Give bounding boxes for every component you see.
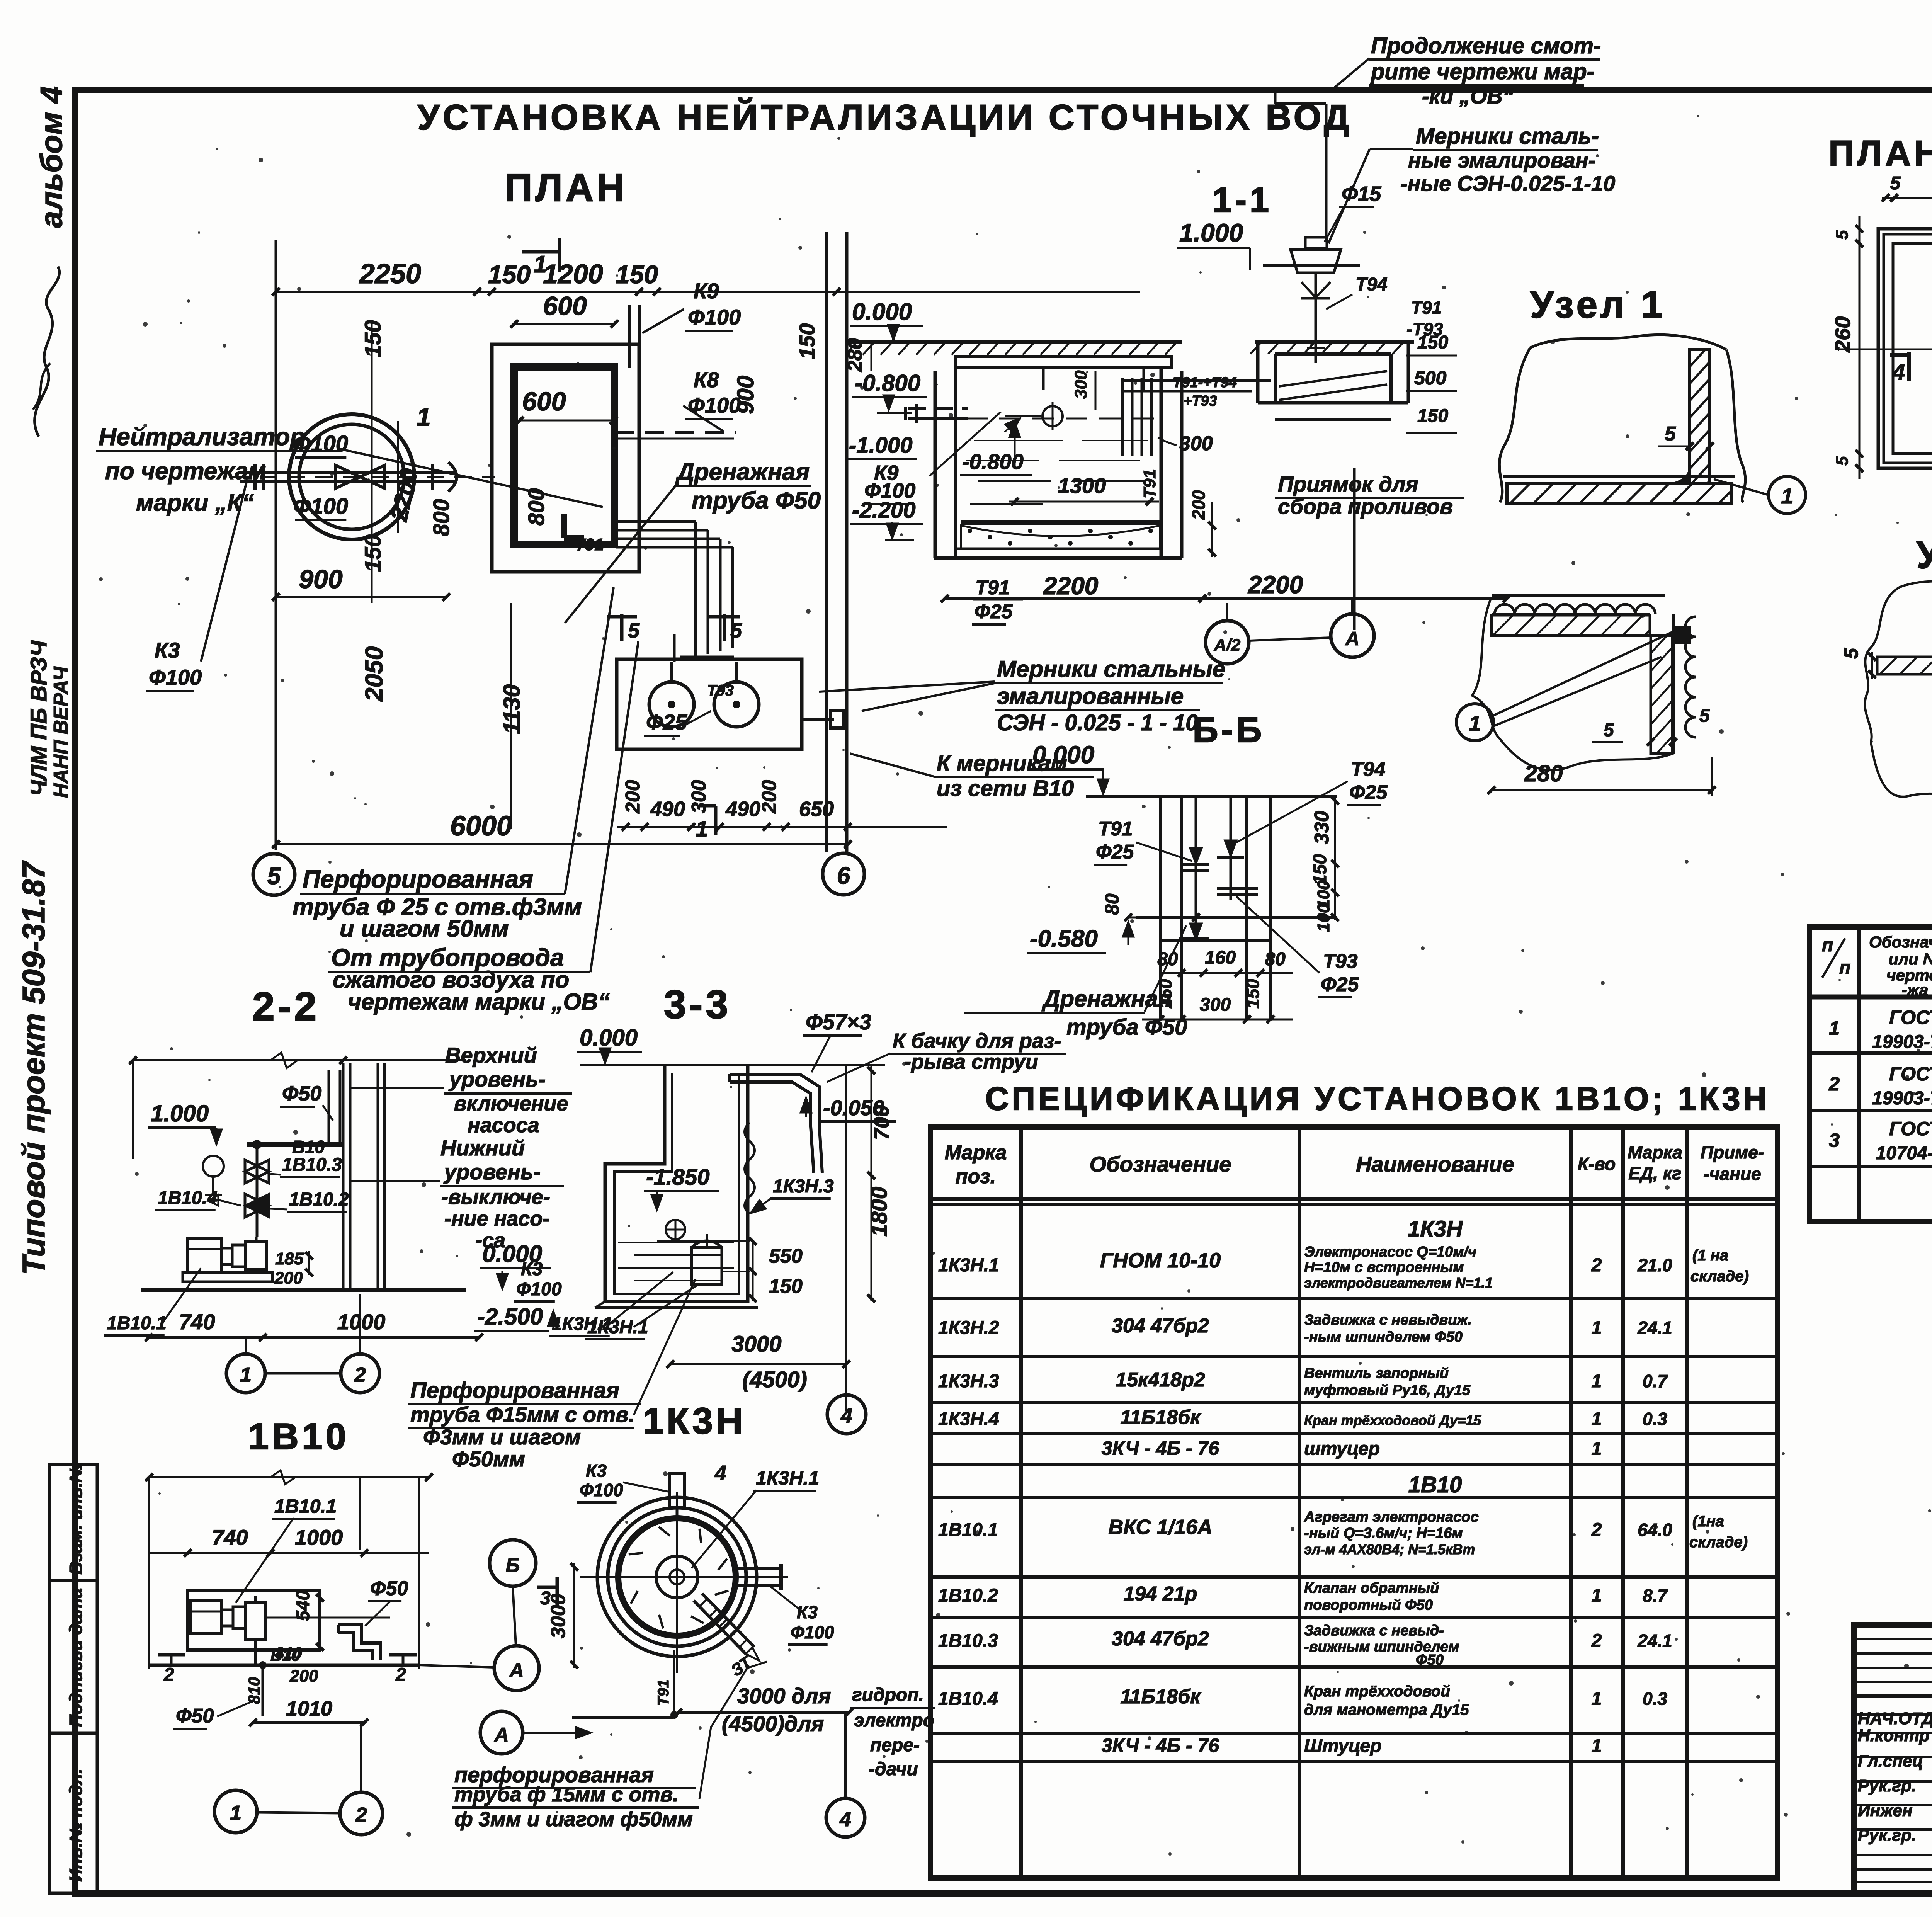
svg-text:194 21р: 194 21р bbox=[1124, 1583, 1197, 1605]
svg-text:СЭН - 0.025 - 1 - 10: СЭН - 0.025 - 1 - 10 bbox=[997, 710, 1198, 735]
svg-text:Б-Б: Б-Б bbox=[1193, 710, 1265, 750]
svg-text:0.000: 0.000 bbox=[580, 1025, 638, 1051]
svg-text:160: 160 bbox=[1205, 947, 1236, 968]
svg-text:Инжен: Инжен bbox=[1858, 1801, 1913, 1820]
svg-text:Штуцер: Штуцер bbox=[1304, 1736, 1381, 1756]
1k3n tank circles bbox=[597, 1497, 757, 1657]
1v10 axis circles 1 2 bottom bbox=[214, 1790, 257, 1833]
uzel 1 corner black weld square bbox=[1673, 626, 1691, 644]
svg-text:поз.: поз. bbox=[956, 1165, 996, 1188]
svg-text:Нейтрализатор: Нейтрализатор bbox=[99, 423, 305, 451]
svg-text:24.1: 24.1 bbox=[1637, 1631, 1672, 1651]
svg-text:из сети В10: из сети В10 bbox=[937, 776, 1074, 801]
mernik vessel symbol bbox=[1263, 264, 1360, 267]
svg-text:Ф50: Ф50 bbox=[1416, 1652, 1444, 1668]
2-2 riser pipe f50 bbox=[328, 1070, 330, 1147]
svg-text:(1на: (1на bbox=[1692, 1513, 1724, 1530]
svg-text:810: 810 bbox=[245, 1677, 263, 1704]
svg-text:1К3Н.1: 1К3Н.1 bbox=[938, 1255, 999, 1276]
bachok plan inner square bbox=[1884, 234, 1932, 463]
B-B wall verticals bbox=[1159, 797, 1162, 1019]
svg-text:Ф25: Ф25 bbox=[646, 710, 687, 734]
svg-text:ГНОМ 10-10: ГНОМ 10-10 bbox=[1100, 1249, 1221, 1272]
svg-text:Клапан обратный: Клапан обратный bbox=[1304, 1580, 1439, 1596]
svg-text:1В10.2: 1В10.2 bbox=[289, 1189, 349, 1210]
svg-text:включение: включение bbox=[454, 1092, 568, 1115]
svg-text:5: 5 bbox=[730, 619, 742, 642]
2-2 manometer symbol bbox=[203, 1156, 224, 1177]
uzel 1 corner hatch band bbox=[1492, 615, 1650, 636]
svg-text:740: 740 bbox=[212, 1525, 248, 1550]
axis circle A lower 1k3n bbox=[480, 1711, 523, 1754]
svg-text:-рыва струи: -рыва струи bbox=[904, 1050, 1038, 1073]
2-2 pump unit bbox=[187, 1238, 221, 1272]
uzel 1 weld fillet black bbox=[1672, 466, 1690, 483]
svg-text:3000: 3000 bbox=[547, 1594, 570, 1638]
svg-text:304 47бр2: 304 47бр2 bbox=[1112, 1628, 1209, 1650]
priyamok walls bbox=[1256, 342, 1260, 403]
svg-text:пере-: пере- bbox=[870, 1735, 920, 1755]
1k3n right pipe stub bbox=[736, 1567, 781, 1570]
svg-text:1000: 1000 bbox=[295, 1525, 343, 1550]
svg-text:600: 600 bbox=[522, 387, 566, 416]
svg-text:600: 600 bbox=[543, 291, 587, 321]
svg-text:труба ф 15мм с отв.: труба ф 15мм с отв. bbox=[454, 1783, 679, 1806]
tank water lines bbox=[966, 418, 1155, 420]
1v10 dim 740 1000 bbox=[149, 1552, 429, 1554]
svg-text:Ф50: Ф50 bbox=[176, 1705, 214, 1727]
svg-text:Т94: Т94 bbox=[1351, 758, 1386, 781]
svg-text:А: А bbox=[493, 1724, 509, 1746]
plan tank inner thick rectangle bbox=[514, 367, 614, 544]
svg-text:Подписьи дата: Подписьи дата bbox=[66, 1588, 86, 1727]
svg-text:1В10: 1В10 bbox=[1408, 1472, 1462, 1497]
svg-text:2: 2 bbox=[395, 1665, 406, 1685]
svg-text:-жа: -жа bbox=[1902, 981, 1929, 999]
title block outer bbox=[1854, 1625, 1932, 1893]
uzel 1 upper cloud outline bbox=[1499, 335, 1745, 502]
svg-text:СПЕЦИФИКАЦИЯ УСТАНОВОК 1В1О;: СПЕЦИФИКАЦИЯ УСТАНОВОК 1В1О; 1К3Н bbox=[985, 1080, 1770, 1117]
svg-text:4: 4 bbox=[714, 1461, 726, 1485]
svg-text:300: 300 bbox=[1071, 370, 1090, 399]
uzel 1 corner leaders from item 1 bbox=[1456, 704, 1493, 741]
svg-text:Т91: Т91 bbox=[1098, 818, 1133, 840]
B-B horizontal lines lower bbox=[1136, 916, 1337, 919]
svg-text:1К3Н: 1К3Н bbox=[1408, 1216, 1463, 1242]
svg-text:(1 на: (1 на bbox=[1692, 1247, 1728, 1264]
svg-text:1: 1 bbox=[696, 816, 708, 842]
margin box vzam inv bbox=[49, 1465, 97, 1580]
svg-text:или №: или № bbox=[1888, 950, 1932, 968]
svg-text:К3: К3 bbox=[797, 1602, 818, 1622]
svg-text:3-3: 3-3 bbox=[664, 982, 731, 1027]
3-3 flexible hose squiggle bbox=[745, 1123, 755, 1214]
neutralizer circle (item 1) bbox=[289, 414, 414, 539]
svg-text:А: А bbox=[509, 1659, 524, 1682]
svg-text:-1.000: -1.000 bbox=[849, 433, 912, 458]
bachok plan top dim 5 260 5 bbox=[1882, 197, 1932, 199]
svg-text:1В10.4: 1В10.4 bbox=[938, 1689, 998, 1709]
svg-text:Ф25: Ф25 bbox=[1096, 841, 1134, 863]
svg-text:Узел 2: Узел 2 bbox=[1917, 534, 1932, 576]
svg-text:2: 2 bbox=[1828, 1073, 1840, 1095]
svg-text:Ф25: Ф25 bbox=[1349, 781, 1388, 804]
3-3 submersible pump bbox=[692, 1247, 722, 1284]
svg-text:11Б18бк: 11Б18бк bbox=[1120, 1406, 1201, 1429]
svg-text:Взам. инв.№: Взам. инв.№ bbox=[66, 1462, 86, 1575]
svg-text:150: 150 bbox=[1243, 979, 1263, 1009]
svg-text:труба Ф50: труба Ф50 bbox=[1066, 1015, 1187, 1040]
svg-text:по чертежам: по чертежам bbox=[105, 458, 266, 485]
section flags 5-5 on plan bbox=[620, 614, 624, 641]
svg-text:-ние насо-: -ние насо- bbox=[444, 1207, 549, 1230]
svg-text:1: 1 bbox=[1592, 1371, 1602, 1391]
B-B top line bbox=[1086, 795, 1337, 798]
1k3n ground line bbox=[572, 1716, 673, 1719]
1v10 section marks 2-2 bbox=[158, 1653, 185, 1657]
svg-text:80: 80 bbox=[1101, 893, 1123, 915]
svg-text:Верхний: Верхний bbox=[445, 1043, 537, 1067]
svg-text:-чание: -чание bbox=[1703, 1164, 1761, 1184]
svg-text:6000: 6000 bbox=[450, 811, 512, 842]
svg-text:поворотный Ф50: поворотный Ф50 bbox=[1304, 1597, 1433, 1613]
svg-text:Ф100: Ф100 bbox=[688, 305, 741, 329]
svg-text:-ным шпинделем Ф50: -ным шпинделем Ф50 bbox=[1304, 1329, 1463, 1345]
svg-text:1К3Н: 1К3Н bbox=[643, 1400, 746, 1442]
uzel 1 item circle 1 bbox=[1769, 476, 1806, 514]
1k3n diagonal perforated pipe bbox=[694, 1601, 746, 1654]
svg-text:штуцер: штуцер bbox=[1304, 1439, 1380, 1459]
B-B pipe verticals with flanges and arrows bbox=[1195, 797, 1197, 939]
svg-text:Т91: Т91 bbox=[1140, 469, 1159, 498]
2-2 wall double lines bbox=[342, 1063, 345, 1290]
svg-text:300: 300 bbox=[1200, 995, 1231, 1015]
svg-text:260: 260 bbox=[1830, 316, 1855, 353]
svg-text:150: 150 bbox=[769, 1275, 803, 1298]
3-3 reference top line bbox=[580, 1064, 885, 1066]
svg-text:1В10.3: 1В10.3 bbox=[938, 1631, 998, 1651]
svg-text:Т91: Т91 bbox=[1411, 298, 1442, 318]
svg-text:и шагом 50мм: и шагом 50мм bbox=[340, 915, 509, 942]
svg-text:УСТАНОВКА НЕЙТРАЛИЗАЦИИ СТОЧ: УСТАНОВКА НЕЙТРАЛИЗАЦИИ СТОЧНЫХ ВОД bbox=[417, 97, 1352, 137]
svg-text:Ф25: Ф25 bbox=[1321, 973, 1359, 996]
svg-text:рите чертежи мар-: рите чертежи мар- bbox=[1370, 59, 1594, 84]
grid circle 5 bbox=[253, 854, 295, 895]
svg-text:ВКС 1/16А: ВКС 1/16А bbox=[1108, 1516, 1213, 1539]
spec table outer border bbox=[1810, 927, 1932, 1221]
svg-text:550: 550 bbox=[769, 1245, 803, 1267]
vertical line through priyamok label bbox=[1353, 468, 1356, 630]
1v10 foundation rect bbox=[188, 1590, 320, 1650]
svg-text:200: 200 bbox=[289, 1667, 318, 1686]
svg-text:Н=10м с встроенным: Н=10м с встроенным bbox=[1304, 1259, 1464, 1276]
svg-text:Рук.гр.: Рук.гр. bbox=[1858, 1826, 1916, 1845]
svg-text:труба Ф15мм с отв.: труба Ф15мм с отв. bbox=[410, 1402, 634, 1427]
2-2 axis circles 1 and 2 bbox=[226, 1354, 265, 1393]
svg-text:Т91: Т91 bbox=[655, 1679, 672, 1706]
svg-text:1: 1 bbox=[1781, 484, 1793, 508]
svg-text:150: 150 bbox=[1417, 332, 1448, 353]
svg-text:500: 500 bbox=[1414, 367, 1447, 389]
svg-text:810: 810 bbox=[275, 1644, 302, 1662]
svg-text:1В10.1: 1В10.1 bbox=[938, 1520, 998, 1540]
big table outer border bbox=[930, 1127, 1777, 1878]
svg-text:Задвижка с невыд-: Задвижка с невыд- bbox=[1304, 1623, 1444, 1639]
svg-text:4: 4 bbox=[1892, 359, 1905, 384]
svg-text:1: 1 bbox=[417, 403, 431, 431]
svg-text:ГОСТ: ГОСТ bbox=[1889, 1007, 1932, 1028]
svg-text:-ный Q=3.6м/ч; Н=16м: -ный Q=3.6м/ч; Н=16м bbox=[1304, 1525, 1463, 1541]
svg-text:электродвигателем N=1.1: электродвигателем N=1.1 bbox=[1304, 1275, 1493, 1291]
svg-text:Марка: Марка bbox=[945, 1141, 1007, 1164]
svg-text:1К3Н.4: 1К3Н.4 bbox=[938, 1409, 999, 1429]
svg-text:490: 490 bbox=[725, 798, 760, 821]
plan grid line 5 bbox=[275, 240, 277, 850]
dim 900 left bbox=[276, 596, 446, 598]
svg-text:1В10: 1В10 bbox=[248, 1416, 349, 1457]
svg-text:ЕД, кг: ЕД, кг bbox=[1628, 1163, 1681, 1183]
svg-text:Продолжение смот-: Продолжение смот- bbox=[1371, 33, 1601, 58]
svg-text:200: 200 bbox=[274, 1269, 303, 1288]
svg-text:-0.580: -0.580 bbox=[1030, 925, 1098, 952]
section 1-1 ground line with hatching bbox=[850, 340, 1182, 344]
title block left thin rows bbox=[1854, 1638, 1932, 1640]
svg-text:2200: 2200 bbox=[1248, 571, 1303, 599]
dim 600 top bbox=[514, 323, 614, 325]
svg-text:1К3Н.1: 1К3Н.1 bbox=[756, 1467, 819, 1489]
svg-text:8.7: 8.7 bbox=[1643, 1585, 1668, 1606]
svg-text:-1.850: -1.850 bbox=[646, 1165, 709, 1190]
svg-text:5: 5 bbox=[1604, 720, 1614, 740]
svg-text:650: 650 bbox=[799, 798, 834, 821]
svg-text:1К3Н.3: 1К3Н.3 bbox=[773, 1176, 834, 1197]
svg-text:5: 5 bbox=[267, 863, 281, 890]
uzel 2 horizontal plate hatched bbox=[1877, 657, 1932, 674]
svg-text:5: 5 bbox=[1665, 423, 1676, 445]
svg-text:-выключе-: -выключе- bbox=[441, 1186, 550, 1209]
svg-text:К3: К3 bbox=[521, 1259, 543, 1279]
svg-text:Мерники стальные: Мерники стальные bbox=[997, 656, 1225, 682]
svg-text:ные эмалирован-: ные эмалирован- bbox=[1408, 148, 1595, 172]
3-3 float symbol bbox=[666, 1220, 685, 1239]
margin box inv podl bbox=[49, 1733, 97, 1893]
svg-text:150: 150 bbox=[1310, 854, 1330, 885]
svg-text:Перфорированная: Перфорированная bbox=[303, 865, 533, 893]
svg-text:НАЧ.ОТД: НАЧ.ОТД bbox=[1858, 1709, 1932, 1728]
svg-text:80: 80 bbox=[1265, 949, 1286, 970]
B-B bottom dims 150 300 150 bbox=[1142, 1019, 1293, 1021]
uzel 1 corner vertical bar hatched bbox=[1651, 636, 1672, 754]
svg-text:Ф100: Ф100 bbox=[791, 1622, 834, 1642]
svg-text:уровень-: уровень- bbox=[443, 1160, 541, 1184]
perforated pipe symbol in tank bbox=[1043, 406, 1063, 426]
svg-text:1: 1 bbox=[1469, 711, 1481, 735]
svg-text:2250: 2250 bbox=[359, 259, 421, 289]
svg-text:ЧЛМ ПБ ВРЗЧ: ЧЛМ ПБ ВРЗЧ bbox=[26, 640, 51, 796]
svg-text:1В10.2: 1В10.2 bbox=[938, 1585, 998, 1606]
axis circle A bbox=[494, 1646, 539, 1691]
svg-text:304 47бр2: 304 47бр2 bbox=[1112, 1315, 1209, 1337]
svg-text:200: 200 bbox=[758, 780, 781, 814]
big table header separator bbox=[930, 1197, 1777, 1201]
section mark 1 top bbox=[522, 250, 560, 254]
svg-text:Ф50мм: Ф50мм bbox=[452, 1447, 525, 1471]
svg-text:Мерники сталь-: Мерники сталь- bbox=[1416, 124, 1599, 149]
bachok plan section mark 4 left bbox=[1907, 352, 1911, 381]
svg-text:складе): складе) bbox=[1689, 1534, 1748, 1551]
svg-text:1К3Н.2: 1К3Н.2 bbox=[938, 1318, 999, 1338]
svg-text:А/2: А/2 bbox=[1214, 636, 1241, 655]
svg-text:1В10.1: 1В10.1 bbox=[274, 1495, 337, 1517]
svg-text:150: 150 bbox=[361, 534, 386, 572]
1v10 top dim line bbox=[149, 1476, 429, 1478]
svg-text:(4500): (4500) bbox=[742, 1367, 807, 1392]
svg-text:марки „К“: марки „К“ bbox=[136, 490, 254, 516]
svg-text:складе): складе) bbox=[1690, 1268, 1749, 1285]
pipe K3 into circle with valve bbox=[240, 471, 457, 474]
svg-text:5: 5 bbox=[1699, 706, 1710, 726]
pipes bundle below tank bbox=[694, 572, 697, 657]
svg-text:1-1: 1-1 bbox=[1213, 181, 1272, 219]
svg-text:280: 280 bbox=[1524, 760, 1563, 786]
svg-text:для манометра Ду15: для манометра Ду15 bbox=[1304, 1701, 1469, 1718]
plan tank outer rectangle bbox=[492, 344, 639, 572]
pit walls section 1-1 bbox=[934, 371, 937, 558]
svg-text:150: 150 bbox=[361, 320, 386, 357]
svg-text:64.0: 64.0 bbox=[1638, 1520, 1672, 1540]
svg-text:К3: К3 bbox=[155, 638, 180, 662]
svg-text:0.3: 0.3 bbox=[1643, 1409, 1667, 1429]
svg-text:700: 700 bbox=[870, 1105, 893, 1140]
svg-text:НАНП ВЕРАЧ: НАНП ВЕРАЧ bbox=[50, 666, 72, 798]
svg-text:2200: 2200 bbox=[1043, 572, 1098, 600]
svg-text:Н.контр: Н.контр bbox=[1858, 1726, 1930, 1745]
1k3n crosshair bbox=[676, 1492, 678, 1673]
svg-text:чертежам марки „ОВ“: чертежам марки „ОВ“ bbox=[348, 989, 610, 1015]
svg-text:150: 150 bbox=[616, 260, 658, 289]
svg-text:800: 800 bbox=[429, 499, 454, 536]
pipe K9 stub top bbox=[628, 305, 631, 368]
svg-text:300: 300 bbox=[1179, 432, 1213, 455]
uzel 1 floor slab hatched bbox=[1507, 483, 1731, 503]
svg-text:Кран трёхходовой: Кран трёхходовой bbox=[1304, 1683, 1450, 1700]
svg-text:ГОСТ: ГОСТ bbox=[1889, 1118, 1932, 1140]
pipe K9 stub into pit bbox=[908, 407, 968, 410]
svg-text:К бачку для раз-: К бачку для раз- bbox=[893, 1029, 1061, 1053]
1k3n top pipe stub bbox=[670, 1473, 684, 1507]
svg-text:-ки „ОВ“: -ки „ОВ“ bbox=[1422, 84, 1514, 108]
svg-text:ГОСТ: ГОСТ bbox=[1889, 1063, 1932, 1085]
svg-text:19903-74*: 19903-74* bbox=[1872, 1088, 1932, 1109]
grid circle 6 bbox=[823, 853, 864, 895]
dim T91 2200 and 2200 under section 1-1 bbox=[945, 597, 1507, 600]
svg-text:Обозначение: Обозначение bbox=[1090, 1152, 1231, 1176]
svg-text:150: 150 bbox=[795, 323, 819, 359]
svg-text:К9: К9 bbox=[694, 279, 719, 303]
axis circles A/2 and A under section 1-1 bbox=[1206, 621, 1249, 664]
svg-text:2-2: 2-2 bbox=[252, 984, 320, 1029]
big table column lines bbox=[1019, 1127, 1023, 1878]
svg-text:1: 1 bbox=[1592, 1689, 1602, 1709]
svg-text:Т94: Т94 bbox=[1355, 274, 1388, 295]
svg-text:Марка: Марка bbox=[1628, 1142, 1682, 1162]
svg-text:электро: электро bbox=[854, 1710, 934, 1731]
spec table header separator bbox=[1810, 995, 1932, 1000]
svg-text:1В10.3: 1В10.3 bbox=[282, 1155, 342, 1175]
svg-text:10704-76: 10704-76 bbox=[1876, 1143, 1932, 1163]
svg-text:15к418р2: 15к418р2 bbox=[1116, 1369, 1205, 1391]
bachok plan dashed inner square bbox=[1893, 243, 1932, 454]
svg-text:80: 80 bbox=[1157, 949, 1178, 970]
svg-text:Приямок для: Приямок для bbox=[1278, 472, 1418, 496]
svg-text:Наименование: Наименование bbox=[1356, 1152, 1514, 1176]
spec table column lines bbox=[1857, 927, 1861, 1221]
svg-text:1: 1 bbox=[240, 1363, 252, 1386]
tank bottom and sediment bbox=[961, 520, 1160, 525]
svg-text:300: 300 bbox=[688, 780, 710, 813]
svg-text:1: 1 bbox=[1592, 1318, 1602, 1338]
svg-text:150: 150 bbox=[1417, 406, 1448, 426]
3-3 grid circle 4 bbox=[827, 1395, 866, 1434]
svg-text:1: 1 bbox=[1592, 1439, 1602, 1459]
svg-text:А: А bbox=[1345, 628, 1359, 650]
svg-text:Узел 1: Узел 1 bbox=[1530, 283, 1665, 326]
svg-text:Ф100: Ф100 bbox=[149, 665, 202, 689]
svg-text:п: п bbox=[1822, 935, 1833, 956]
svg-text:Приме-: Приме- bbox=[1701, 1142, 1764, 1162]
svg-text:К-во: К-во bbox=[1578, 1154, 1616, 1174]
svg-text:1010: 1010 bbox=[286, 1697, 332, 1720]
B-B bottom dims 80 160 80 bbox=[1160, 972, 1293, 974]
svg-text:Рук.гр.: Рук.гр. bbox=[1858, 1776, 1916, 1795]
3-3 tank stepped outline bbox=[605, 1065, 748, 1301]
svg-text:-дачи: -дачи bbox=[869, 1759, 918, 1779]
svg-text:В10: В10 bbox=[292, 1137, 325, 1157]
svg-text:0.000: 0.000 bbox=[1032, 741, 1094, 769]
2-2 dim 740 1000 bbox=[149, 1336, 479, 1339]
svg-text:Дренажная: Дренажная bbox=[1041, 986, 1172, 1012]
1k3n grid circle 4 bbox=[826, 1798, 865, 1837]
2-2 left extension line bbox=[132, 1060, 134, 1159]
svg-text:(4500)для: (4500)для bbox=[722, 1711, 824, 1736]
pit cover slab bbox=[956, 356, 1172, 367]
svg-text:19903-74*: 19903-74* bbox=[1872, 1032, 1932, 1052]
svg-text:Кран трёхходовой Ду=15: Кран трёхходовой Ду=15 bbox=[1304, 1412, 1481, 1428]
svg-text:ф 3мм и шагом ф50мм: ф 3мм и шагом ф50мм bbox=[454, 1808, 693, 1831]
svg-text:+Т93: +Т93 bbox=[1183, 393, 1217, 409]
svg-text:Ф15: Ф15 bbox=[1342, 182, 1381, 206]
svg-text:К8: К8 bbox=[694, 367, 719, 392]
svg-text:150: 150 bbox=[488, 260, 531, 289]
svg-text:5: 5 bbox=[1890, 173, 1901, 194]
svg-text:муфтовый Ру16, Ду15: муфтовый Ру16, Ду15 bbox=[1304, 1382, 1471, 1398]
svg-text:Обозначен.: Обозначен. bbox=[1869, 933, 1932, 951]
1v10 pump unit plan bbox=[190, 1601, 221, 1634]
uzel 1 corner scallop band top bbox=[1492, 594, 1665, 597]
svg-text:4: 4 bbox=[840, 1404, 852, 1427]
svg-text:-2.200: -2.200 bbox=[852, 498, 915, 523]
svg-text:3КЧ - 4Б - 76: 3КЧ - 4Б - 76 bbox=[1102, 1735, 1219, 1756]
svg-text:540: 540 bbox=[293, 1590, 313, 1621]
svg-text:труба Ф50: труба Ф50 bbox=[692, 487, 821, 514]
svg-text:альбом 4: альбом 4 bbox=[34, 86, 68, 228]
svg-text:3000 для: 3000 для bbox=[737, 1684, 831, 1708]
svg-text:3000: 3000 bbox=[731, 1332, 781, 1357]
svg-text:3: 3 bbox=[1829, 1129, 1840, 1151]
uzel 1 corner vertical scallops right bbox=[1685, 617, 1696, 737]
svg-text:Ф3мм и шагом: Ф3мм и шагом bbox=[423, 1425, 581, 1449]
spec table row lines bbox=[1810, 1051, 1932, 1055]
